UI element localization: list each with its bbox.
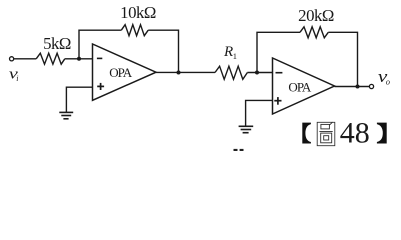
label R1 — [223, 44, 237, 61]
caption bracket 【 — [302, 123, 311, 144]
wire vi terminal to 5k resistor — [14, 58, 36, 60]
U1 inverting pin label - — [97, 57, 102, 59]
label OPA (U2) — [288, 80, 312, 95]
junction U1 output / feedback node — [177, 70, 181, 74]
ground G1 — [59, 112, 73, 118]
value label 5kΩ — [43, 34, 71, 53]
resistor R1 (interstage) — [215, 66, 247, 79]
label OPA (U1) — [109, 65, 133, 80]
caption text 48 — [340, 116, 370, 149]
wire U1 inverting node up and across to 10k feedback resistor — [79, 30, 121, 58]
svg-text:48: 48 — [340, 116, 370, 149]
label vi — [9, 66, 19, 83]
wire 10k feedback resistor down to U1 output — [148, 30, 178, 72]
wire U1 output to resistor R1 — [156, 71, 215, 73]
svg-text:OPA: OPA — [109, 65, 133, 80]
wire R1 to U2 inverting input — [247, 72, 272, 74]
node vi input terminal — [10, 57, 14, 61]
svg-text:10kΩ: 10kΩ — [120, 3, 156, 22]
wire U2 output to vo terminal — [335, 86, 370, 88]
wire U2 inverting node up and across to 20k feedback resistor — [257, 32, 300, 72]
ground G2 — [239, 126, 254, 132]
caption glyph 圖 (Figure) — [317, 122, 335, 146]
U2 inverting pin label - — [276, 72, 283, 74]
svg-text:i: i — [16, 74, 18, 83]
op-amp U2 — [273, 58, 335, 114]
resistor 10kΩ (stage-1 feedback) — [121, 25, 148, 36]
wire U2 non-inverting input to ground — [246, 100, 273, 125]
junction U2 output / feedback node — [356, 85, 360, 89]
svg-text:OPA: OPA — [288, 80, 312, 95]
junction at U1 inverting input node — [77, 57, 81, 61]
U2 non-inverting pin label + — [274, 97, 281, 105]
svg-text:5kΩ: 5kΩ — [43, 34, 71, 53]
U1 non-inverting pin label + — [97, 83, 104, 90]
resistor 20kΩ (stage-2 feedback) — [300, 27, 328, 38]
caption bracket 】 — [377, 123, 387, 144]
svg-text:1: 1 — [233, 51, 237, 61]
value label 10kΩ — [120, 3, 156, 22]
node vo output terminal — [369, 84, 373, 88]
svg-text:R: R — [223, 44, 233, 60]
wire 5k resistor to U1 inverting input — [65, 58, 93, 60]
junction at U2 inverting input node — [255, 71, 259, 75]
svg-text:20kΩ: 20kΩ — [298, 6, 334, 25]
resistor 5kΩ (stage-1 input resistor) — [36, 53, 65, 64]
label vo — [378, 67, 390, 87]
op-amp U1 — [93, 44, 157, 100]
wire 20k feedback resistor down to U2 output — [328, 32, 357, 86]
wire U1 non-inverting input to ground — [66, 87, 92, 112]
svg-text:o: o — [386, 77, 390, 87]
cropped text fragment at bottom edge — [234, 149, 244, 151]
value label 20kΩ — [298, 6, 334, 25]
